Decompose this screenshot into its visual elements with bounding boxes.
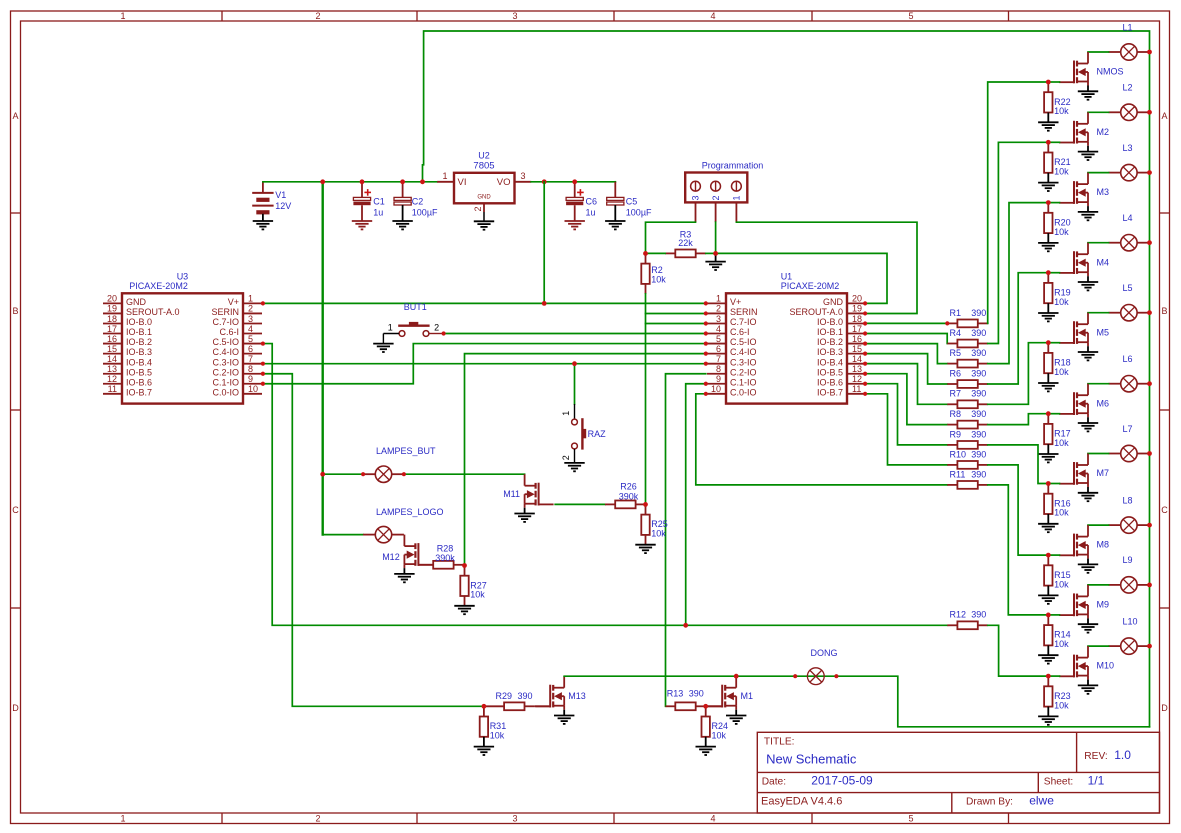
resistor R21 10k [1044, 142, 1071, 182]
junction lamp L8 / bus [1147, 523, 1152, 528]
wire R10 to gate [988, 465, 1049, 555]
svg-text:IO-B.7: IO-B.7 [817, 387, 843, 397]
ground (M11 source) [514, 508, 534, 522]
svg-text:SERIN: SERIN [211, 307, 239, 317]
svg-text:19: 19 [852, 304, 862, 314]
svg-text:L7: L7 [1123, 424, 1133, 434]
svg-text:C5: C5 [626, 196, 638, 206]
pushbutton BUT1 [383, 302, 443, 344]
svg-text:D: D [12, 703, 19, 713]
svg-text:10k: 10k [1054, 106, 1069, 116]
resistor R2 10k [641, 253, 666, 294]
svg-text:16: 16 [852, 334, 862, 344]
ground (M8 source) [1078, 559, 1098, 573]
svg-text:22k: 22k [678, 238, 693, 248]
svg-text:3: 3 [248, 314, 253, 324]
transistor M10 [1059, 646, 1114, 680]
wire C.3-IO row (U3 pin7 to U1 pin7) [263, 363, 706, 365]
svg-text:1u: 1u [586, 208, 596, 218]
svg-text:C.7-IO: C.7-IO [212, 317, 239, 327]
junction U1 right pin 14 [863, 362, 867, 366]
lamp L6 [1109, 354, 1150, 392]
svg-text:1: 1 [388, 323, 393, 333]
svg-text:EasyEDA V4.4.6: EasyEDA V4.4.6 [761, 796, 842, 808]
svg-text:VI: VI [458, 177, 467, 188]
svg-text:M9: M9 [1097, 600, 1110, 610]
svg-text:100µF: 100µF [626, 208, 652, 218]
svg-text:L6: L6 [1123, 354, 1133, 364]
resistor R12 390 [947, 610, 988, 630]
junction U1 right pin 20 [863, 301, 867, 305]
svg-text:10k: 10k [1054, 367, 1069, 377]
ground (M1 source) [726, 710, 746, 724]
svg-text:L3: L3 [1123, 143, 1133, 153]
junction U1 pin6 [704, 352, 708, 356]
junction (rail / top bus riser) [420, 179, 425, 184]
regulator U2 7805 [437, 150, 531, 221]
svg-text:10k: 10k [1054, 579, 1069, 589]
svg-text:L5: L5 [1123, 283, 1133, 293]
svg-text:GND: GND [126, 297, 147, 307]
resistor R26 390k [605, 481, 646, 508]
junction U1 pin10 [704, 392, 708, 396]
svg-text:1: 1 [716, 294, 721, 304]
lamp L5 [1109, 283, 1150, 321]
svg-text:C2: C2 [412, 196, 424, 206]
svg-text:13: 13 [852, 364, 862, 374]
ground (R15) [1038, 595, 1058, 603]
ground (C6) [565, 221, 585, 229]
wire drain to lamp L9 [1088, 584, 1109, 586]
svg-text:C.3-IO: C.3-IO [212, 357, 239, 367]
svg-text:18: 18 [107, 314, 117, 324]
svg-text:IO-B.5: IO-B.5 [126, 367, 152, 377]
wire R5 to gate [988, 203, 1049, 364]
wire connector pin2 to ground node [715, 222, 717, 253]
svg-text:4: 4 [710, 11, 715, 21]
svg-text:10k: 10k [651, 274, 666, 284]
wire 12V to lamp LAMPES_BUT [323, 473, 363, 475]
svg-text:C: C [12, 505, 19, 515]
svg-text:IO-B.3: IO-B.3 [126, 347, 152, 357]
junction R12 bus tap [683, 623, 688, 628]
transistor M12 [382, 535, 433, 569]
svg-text:IO-B.3: IO-B.3 [817, 347, 843, 357]
connector Programmation [685, 161, 763, 223]
svg-text:10k: 10k [1054, 227, 1069, 237]
lamp DONG [795, 648, 837, 684]
junction U1 right pin 15 [863, 352, 867, 356]
svg-text:IO-B.6: IO-B.6 [817, 377, 843, 387]
wire 12V left bus [322, 182, 324, 535]
transistor M2 [1059, 112, 1109, 146]
svg-text:10k: 10k [1054, 700, 1069, 710]
resistor R19 10k [1044, 273, 1071, 313]
wire R12 to gate [988, 625, 1049, 676]
svg-text:R5: R5 [950, 348, 962, 358]
svg-text:10k: 10k [1054, 438, 1069, 448]
junction (rail / C1) [360, 179, 365, 184]
svg-text:C.0-IO: C.0-IO [212, 387, 239, 397]
svg-text:16: 16 [107, 334, 117, 344]
ground (M2 source) [1078, 146, 1098, 160]
ground (M6 source) [1078, 417, 1098, 431]
ground (BUT1 pin1) [373, 344, 393, 352]
svg-text:A: A [12, 111, 18, 121]
wire drain row to DONG [564, 675, 795, 677]
junction lamp L5 / bus [1147, 310, 1152, 315]
svg-text:17: 17 [852, 324, 862, 334]
junction DONG pin2 [834, 674, 838, 678]
lamp L7 [1109, 424, 1150, 462]
svg-text:1: 1 [442, 171, 447, 181]
junction (VO / V+ drop) [542, 179, 547, 184]
wire +12V rail [263, 181, 437, 183]
wire U1 to R8 [865, 374, 947, 425]
junction U3 pin7 [261, 362, 265, 366]
junction U1 right pin 18 [863, 321, 867, 325]
svg-text:M13: M13 [568, 691, 586, 701]
svg-text:4: 4 [248, 324, 253, 334]
svg-text:C.7-IO: C.7-IO [730, 317, 757, 327]
svg-text:390: 390 [971, 328, 986, 338]
svg-text:IO-B.1: IO-B.1 [126, 327, 152, 337]
wire U3 C.1-IO to U1 C.5-IO [263, 344, 706, 384]
svg-text:IO-B.1: IO-B.1 [817, 327, 843, 337]
svg-text:IO-B.7: IO-B.7 [126, 387, 152, 397]
svg-text:8: 8 [716, 364, 721, 374]
svg-text:3: 3 [512, 11, 517, 21]
junction U1 right pin 11 [863, 392, 867, 396]
junction R29/R31 node [482, 704, 487, 709]
junction U1 pin7 [704, 362, 708, 366]
resistor R16 10k [1044, 484, 1071, 524]
wire gate M6 [1048, 413, 1059, 415]
wire R11 to gate [988, 485, 1049, 615]
junction U1 pin4 [704, 331, 708, 335]
svg-text:5: 5 [248, 334, 253, 344]
junction (rail / 12V bus) [320, 179, 325, 184]
resistor R5 390 [947, 348, 988, 368]
svg-text:R26: R26 [620, 481, 637, 491]
svg-text:2: 2 [561, 455, 571, 460]
junction lamp L10 / bus [1147, 644, 1152, 649]
ground (R31) [474, 747, 494, 755]
wire M11 gate to R26 [555, 503, 605, 505]
junction U1 right pin 12 [863, 382, 867, 386]
resistor R8 390 [947, 409, 988, 429]
transistor M7 [1059, 454, 1109, 488]
svg-text:RAZ: RAZ [588, 429, 607, 439]
svg-text:M6: M6 [1097, 398, 1110, 408]
wire connector pin3 to R3 node [646, 222, 696, 253]
junction gate M2 [1046, 140, 1051, 145]
ground (NMOS source) [1078, 86, 1098, 100]
wire U3 C.2-IO to R29 [263, 374, 484, 707]
svg-text:2: 2 [434, 323, 439, 333]
resistor R25 10k [641, 504, 668, 544]
IC U1 PICAXE-20M2 [707, 272, 866, 404]
resistor R31 10k [480, 706, 507, 746]
svg-text:Programmation: Programmation [702, 161, 764, 171]
svg-text:390k: 390k [435, 553, 455, 563]
svg-text:IO-B.5: IO-B.5 [817, 367, 843, 377]
junction U3 pin9 [261, 382, 265, 386]
svg-text:390: 390 [971, 610, 986, 620]
svg-text:4: 4 [710, 814, 715, 824]
svg-text:1.0: 1.0 [1114, 748, 1131, 762]
wire lamp to M11 drain [404, 473, 525, 475]
capacitor C2 [394, 182, 438, 221]
wire gate M9 [1048, 614, 1059, 616]
svg-text:100µF: 100µF [412, 208, 438, 218]
ground (V1) [253, 221, 273, 229]
svg-text:1: 1 [120, 814, 125, 824]
wire connector pin1 to U1 SEROUT [736, 222, 917, 313]
resistor R15 10k [1044, 555, 1071, 595]
wire U1 to R10 [865, 394, 947, 465]
junction U3 pin1 [261, 301, 265, 305]
svg-text:IO-B.6: IO-B.6 [126, 377, 152, 387]
wire GND node to U1 pin20 [716, 253, 887, 303]
junction gate M7 [1046, 481, 1051, 486]
svg-text:LAMPES_LOGO: LAMPES_LOGO [376, 507, 444, 517]
svg-text:C.3-IO: C.3-IO [730, 357, 757, 367]
svg-text:390: 390 [971, 449, 986, 459]
wire drain to lamp L7 [1088, 453, 1109, 455]
lamp L1 [1109, 22, 1150, 60]
svg-text:10k: 10k [470, 590, 485, 600]
wire gate M4 [1048, 272, 1059, 274]
ground (M9 source) [1078, 618, 1098, 632]
svg-text:390: 390 [971, 409, 986, 419]
svg-text:IO-B.0: IO-B.0 [126, 317, 152, 327]
svg-text:SEROUT-A.0: SEROUT-A.0 [126, 307, 180, 317]
pushbutton RAZ [561, 364, 606, 463]
resistor R27 10k [460, 566, 487, 606]
junction gate M5 [1046, 340, 1051, 345]
svg-text:20: 20 [852, 294, 862, 304]
ground (C1) [352, 221, 372, 229]
svg-text:IO-B.2: IO-B.2 [817, 337, 843, 347]
svg-text:U2: U2 [478, 150, 490, 160]
svg-text:7: 7 [248, 354, 253, 364]
wire R3 right tail [706, 252, 716, 254]
junction DONG pin1 [793, 674, 797, 678]
svg-text:10k: 10k [1054, 167, 1069, 177]
title block [757, 732, 1159, 813]
resistor R3 22k [665, 229, 706, 257]
ground (R16) [1038, 524, 1058, 532]
lamp L2 [1109, 83, 1150, 121]
svg-text:New Schematic: New Schematic [766, 751, 857, 766]
ground (R24) [696, 747, 716, 755]
svg-text:2: 2 [315, 11, 320, 21]
svg-text:R10: R10 [950, 449, 967, 459]
resistor R13 390 [666, 689, 706, 711]
junction lamp L1 / bus [1147, 50, 1152, 55]
battery V1 [252, 182, 291, 221]
lamp LAMPES_BUT [363, 466, 404, 482]
svg-text:R9: R9 [950, 429, 962, 439]
svg-text:1: 1 [248, 294, 253, 304]
svg-text:390: 390 [518, 691, 533, 701]
wire drain to lamp L2 [1088, 111, 1109, 113]
ground (M5 source) [1078, 346, 1098, 360]
resistor R29 390 [484, 691, 535, 710]
wire R7 to gate [988, 343, 1049, 405]
wire R1 to gate [988, 82, 1049, 323]
wire drain to lamp L5 [1088, 312, 1109, 314]
svg-text:L4: L4 [1123, 213, 1133, 223]
wire drain to lamp L10 [1088, 645, 1109, 647]
svg-text:15: 15 [107, 344, 117, 354]
svg-text:6: 6 [248, 344, 253, 354]
svg-text:10k: 10k [490, 731, 505, 741]
svg-text:R6: R6 [950, 368, 962, 378]
svg-text:9: 9 [248, 374, 253, 384]
junction lamp L4 / bus [1147, 240, 1152, 245]
svg-text:10k: 10k [1054, 508, 1069, 518]
junction U1 pin2 [704, 311, 708, 315]
capacitor C1 [353, 182, 384, 221]
svg-text:IO-B.4: IO-B.4 [817, 357, 843, 367]
wire drain to lamp L8 [1088, 524, 1109, 526]
junction gate M9 [1046, 613, 1051, 618]
junction gate M6 [1046, 411, 1051, 416]
svg-text:M5: M5 [1097, 327, 1110, 337]
wire U1 to R9 [865, 384, 947, 445]
svg-text:C.4-IO: C.4-IO [730, 347, 757, 357]
svg-text:Sheet:: Sheet: [1044, 777, 1073, 788]
svg-text:M7: M7 [1097, 468, 1110, 478]
resistor R1 390 [947, 308, 988, 328]
svg-text:7805: 7805 [473, 160, 494, 171]
wire gate M5 [1048, 342, 1059, 344]
ground (serial connector) [705, 253, 725, 270]
junction V+/VO drop [542, 182, 547, 306]
ground (R21) [1038, 183, 1058, 191]
junction R26/R25/SERIN node [643, 502, 648, 507]
resistor R14 10k [1044, 615, 1071, 655]
junction lamp L6 / bus [1147, 381, 1152, 386]
junction gate M3 [1046, 200, 1051, 205]
svg-text:L2: L2 [1123, 83, 1133, 93]
svg-text:3: 3 [716, 314, 721, 324]
svg-text:2: 2 [716, 304, 721, 314]
svg-text:8: 8 [248, 364, 253, 374]
wire U1 C.2-IO to R13 [666, 374, 706, 707]
wire U1 C.1-IO to R12 row [686, 384, 706, 626]
svg-text:DONG: DONG [811, 648, 838, 658]
svg-text:C.5-IO: C.5-IO [730, 337, 757, 347]
svg-text:M3: M3 [1097, 187, 1110, 197]
wire 12V to lamp LAMPES_LOGO [323, 534, 363, 536]
wire U1 to R6 [865, 354, 947, 384]
svg-text:1: 1 [732, 195, 742, 200]
svg-text:R28: R28 [437, 543, 454, 553]
svg-text:M4: M4 [1097, 257, 1110, 267]
wire gate M3 [1048, 202, 1059, 204]
wire gate M8 [1048, 554, 1059, 556]
svg-text:390: 390 [971, 308, 986, 318]
svg-text:L1: L1 [1123, 22, 1133, 32]
svg-text:5: 5 [716, 334, 721, 344]
svg-text:9: 9 [716, 374, 721, 384]
junction U1 pin3 [704, 321, 708, 325]
ground (R20) [1038, 243, 1058, 251]
svg-text:10k: 10k [651, 529, 666, 539]
junction gate NMOS [1046, 80, 1051, 85]
svg-text:10k: 10k [712, 731, 727, 741]
resistor R4 390 [947, 328, 988, 348]
junction lamp L7 / bus [1147, 451, 1152, 456]
wire SERIN to U1 pin2 [646, 313, 706, 315]
junction U1 right pin 19 [863, 311, 867, 315]
wire U1 to R7 [865, 364, 947, 405]
junction lamp pin2 [402, 472, 406, 476]
svg-text:12: 12 [107, 374, 117, 384]
ground (U2 pin 2) [474, 221, 494, 229]
svg-text:GND: GND [477, 194, 491, 200]
transistor M13 [535, 676, 586, 710]
ground (R17) [1038, 454, 1058, 462]
svg-text:M1: M1 [741, 691, 754, 701]
svg-text:SERIN: SERIN [730, 307, 758, 317]
svg-text:IO-B.2: IO-B.2 [126, 337, 152, 347]
wire drain to lamp L6 [1088, 383, 1109, 385]
svg-text:R12: R12 [950, 610, 967, 620]
svg-text:390: 390 [971, 429, 986, 439]
wire U1 C.0-IO to R11 row [696, 394, 948, 485]
wire top +12V bus [423, 31, 1150, 727]
svg-text:R7: R7 [950, 389, 962, 399]
junction 12V bus / LAMPES_BUT [320, 472, 325, 477]
junction node GND/R3 [713, 251, 718, 256]
svg-text:M12: M12 [382, 552, 400, 562]
svg-text:11: 11 [852, 384, 861, 394]
svg-text:R4: R4 [950, 328, 962, 338]
svg-text:4: 4 [716, 324, 721, 334]
resistor R20 10k [1044, 203, 1071, 243]
svg-text:12V: 12V [275, 201, 291, 211]
svg-text:PICAXE-20M2: PICAXE-20M2 [129, 281, 188, 291]
transistor M6 [1059, 384, 1109, 418]
svg-text:C.1-IO: C.1-IO [730, 377, 757, 387]
svg-text:C.6-I: C.6-I [730, 327, 750, 337]
svg-text:13: 13 [107, 364, 117, 374]
svg-text:C1: C1 [373, 196, 385, 206]
svg-text:BUT1: BUT1 [404, 302, 427, 312]
lamp LAMPES_LOGO [363, 526, 404, 542]
svg-text:C.1-IO: C.1-IO [212, 377, 239, 387]
wire R9 to gate [988, 445, 1049, 484]
svg-text:R8: R8 [950, 409, 962, 419]
wire R3 left tail [646, 252, 666, 254]
junction gate M10 [1046, 674, 1051, 679]
resistor R7 390 [947, 389, 988, 408]
svg-text:10k: 10k [1054, 297, 1069, 307]
wire R8 to gate [988, 414, 1049, 425]
svg-text:Drawn By:: Drawn By: [966, 797, 1013, 808]
capacitor C6 [566, 182, 597, 221]
capacitor C5 [607, 182, 652, 221]
svg-text:10: 10 [248, 384, 258, 394]
svg-text:M10: M10 [1097, 661, 1115, 671]
wire gate M2 [1048, 141, 1059, 143]
wire drain to lamp L3 [1088, 172, 1109, 174]
svg-text:NMOS: NMOS [1097, 67, 1124, 77]
